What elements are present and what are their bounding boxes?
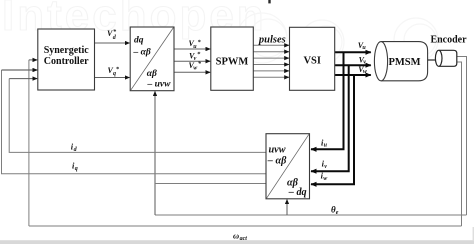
wire Vv thick into PMSM [335, 64, 371, 66]
svg-text:u: u [324, 143, 328, 149]
svg-text:Controller: Controller [44, 56, 89, 67]
svg-text:u: u [362, 45, 366, 51]
wire theta tee to bottom block left [155, 183, 266, 185]
wire pulses 3 [253, 57, 289, 59]
watermark bottom band [0, 240, 474, 244]
encoder [430, 34, 467, 66]
wire Vw* [174, 71, 210, 73]
block uvw to dq transform [266, 134, 310, 199]
svg-text:– αβ: – αβ [267, 155, 287, 166]
block SPWM [211, 27, 254, 90]
svg-text:– dq: – dq [288, 187, 307, 198]
svg-text:– uvw: – uvw [147, 80, 172, 90]
label Vw* [189, 60, 202, 71]
label Vu [358, 41, 367, 51]
wire iq feedback [2, 70, 267, 174]
watermark arcs [237, 13, 438, 64]
wire pulses 6 [253, 76, 289, 78]
svg-text:*: * [197, 51, 201, 58]
wire pulses 2 [253, 51, 289, 53]
label omega_act [233, 230, 247, 242]
svg-text:SPWM: SPWM [216, 56, 249, 67]
label Vu* [189, 39, 202, 50]
wire pulses 5 [253, 70, 289, 72]
motor PMSM [374, 42, 427, 81]
svg-text:dq: dq [134, 35, 144, 45]
block dq to uvw transform [130, 27, 174, 91]
wire Vu thick into PMSM [335, 51, 371, 53]
label Vq* [108, 66, 120, 77]
svg-text:q: q [75, 166, 78, 172]
label Vv* [189, 51, 201, 62]
svg-text:w: w [323, 176, 328, 182]
tiny clipped glyph top centre [268, 0, 270, 3]
block Synergetic Controller [38, 29, 95, 90]
wire omega riser left [28, 60, 30, 226]
watermark right edge mark [472, 227, 474, 240]
svg-text:uvw: uvw [269, 144, 286, 155]
svg-text:ω: ω [233, 230, 239, 240]
svg-text:pulses: pulses [258, 34, 286, 45]
wire Vd* [95, 42, 130, 44]
svg-text:PMSM: PMSM [388, 57, 420, 68]
wire tap w riser [311, 75, 354, 184]
label iw [321, 171, 329, 182]
label iu [321, 137, 328, 148]
wire iq into controller [2, 69, 38, 71]
svg-text:v: v [363, 60, 366, 66]
wire pulses 4 [253, 64, 289, 66]
wire Vu* [174, 48, 210, 50]
wire omega into controller [29, 59, 37, 61]
svg-text:VSI: VSI [303, 56, 321, 67]
wire Vv* [174, 60, 210, 62]
label Vw [358, 65, 368, 75]
wire theta riser to top block [154, 91, 156, 215]
svg-text:Encoder: Encoder [430, 34, 467, 45]
svg-text:*: * [197, 39, 201, 46]
watermark text top [2, 0, 267, 40]
svg-text:– αβ: – αβ [133, 48, 151, 58]
label iq [72, 160, 78, 172]
svg-text:e: e [336, 210, 339, 216]
svg-text:act: act [240, 236, 248, 242]
wire tap u riser [311, 52, 344, 149]
label Vv [359, 55, 367, 65]
label id [71, 142, 78, 154]
label iv [322, 159, 328, 170]
block VSI [290, 27, 335, 90]
wire id into controller [9, 78, 37, 80]
wire theta horizontal [155, 214, 467, 216]
svg-text:Synergetic: Synergetic [44, 45, 90, 56]
wire theta stub at encoder [457, 57, 467, 216]
wire Vq* [95, 77, 130, 79]
wire theta branch into bottom block [286, 199, 288, 215]
label Vd* [107, 29, 117, 41]
label theta_e [331, 205, 339, 217]
svg-text:v: v [324, 164, 327, 170]
wire Vw thick into PMSM [335, 74, 371, 76]
shaft PMSM to encoder [428, 59, 436, 61]
wire omega stub at encoder [457, 62, 462, 226]
wire omega horizontal [29, 225, 462, 227]
wire pulses 1 [253, 44, 289, 46]
svg-text:αβ: αβ [147, 69, 157, 79]
wire id feedback [9, 79, 266, 153]
svg-text:*: * [116, 66, 120, 73]
wire tap v riser [311, 65, 349, 171]
